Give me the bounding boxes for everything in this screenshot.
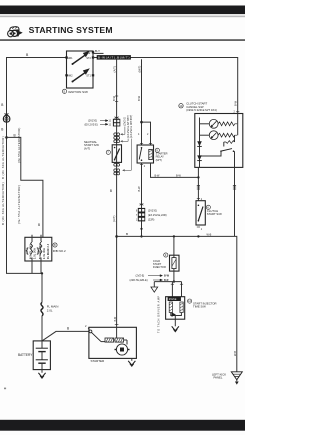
junction dot relay branch: [140, 121, 143, 124]
label B-W on M/T column: [137, 95, 141, 101]
clutch start cancel s/w box: [195, 114, 243, 168]
chassis ground left kick panel: [231, 372, 242, 385]
rotated label to tach driver amp: [156, 295, 160, 333]
rotated label B-W right side: [233, 100, 237, 106]
svg-text:(2VZ-E): (2VZ-E): [148, 209, 157, 213]
junction dot injector drop: [173, 235, 175, 237]
svg-text:(1992-5 22R-E M/T 4X4): (1992-5 22R-E M/T 4X4): [186, 108, 217, 112]
svg-text:(A/T): (A/T): [84, 146, 90, 150]
relay terminal ticks: [138, 133, 152, 144]
rotated engine variant labels: [124, 115, 133, 138]
starter box: [89, 327, 136, 358]
svg-text:B-W: B-W: [164, 275, 170, 278]
rotated label (A/T) drop: [112, 66, 116, 72]
svg-text:B-W: B-W: [233, 100, 237, 106]
top black header bar: [0, 6, 245, 18]
wire: 55A alternator branch: [7, 137, 43, 237]
rotated label W-B right column: [233, 351, 237, 356]
svg-text:B-W: B-W: [155, 174, 161, 177]
wire: branch to arrow and time switch: [154, 282, 181, 297]
svg-text:(M/T): (M/T): [156, 158, 162, 162]
battery ground: [38, 370, 45, 379]
wire: cancel s/w left output down: [197, 167, 199, 200]
starter motor: [115, 340, 130, 355]
svg-text:STARTING SYSTEM: STARTING SYSTEM: [29, 25, 114, 35]
label B-W below relay: [137, 186, 141, 192]
inline connector mark: [140, 204, 144, 206]
svg-text:(W/ 55A ALTERNATOR): (W/ 55A ALTERNATOR): [17, 127, 21, 163]
svg-text:INJECTOR: INJECTOR: [153, 265, 166, 269]
label B on AM1 wire: [26, 53, 29, 57]
svg-text:B-W: B-W: [112, 95, 116, 101]
label clutch start cancel s/w: [179, 102, 217, 113]
cancel s/w resistor 1: [218, 122, 237, 126]
svg-text:2.0L 30A: 2.0L 30A: [33, 248, 36, 259]
label STARTER: [91, 359, 106, 363]
title underline rule: [0, 39, 245, 40]
svg-text:FL MAIN 2.0: FL MAIN 2.0: [47, 243, 50, 259]
ignition switch blade 2: [72, 68, 90, 82]
wire: relay coil return horizontal: [151, 163, 199, 177]
svg-text:B (W/ 60A ALTERNATOR): B (W/ 60A ALTERNATOR): [1, 136, 5, 179]
junction dot alternator split: [5, 136, 8, 139]
cancel s/w small resistor: [224, 141, 235, 147]
label B-W above starter terminal: [114, 316, 119, 324]
cancel s/w lamp 1: [200, 119, 219, 128]
label B upper left wire: [1, 103, 3, 107]
svg-text:B-W: B-W: [137, 95, 141, 101]
label B on bus: [126, 232, 128, 236]
off-page arrow: [151, 287, 158, 292]
svg-text:AM1: AM1: [67, 56, 73, 60]
wire: relay switch output down: [141, 163, 143, 236]
wire color tag B-W(A/T),B(M/T): [97, 55, 131, 60]
label starter relay: [155, 148, 167, 162]
wire battery to starter: [42, 331, 89, 341]
svg-text:B: B: [110, 189, 112, 193]
label R/B No.2: [53, 243, 66, 253]
rotated label (A/T) lower: [112, 216, 116, 222]
svg-text:PANEL: PANEL: [214, 376, 223, 380]
inline connector right column: [233, 185, 236, 189]
svg-text:(A/T): (A/T): [112, 216, 116, 222]
svg-text:(22R-TE,22R-E): (22R-TE,22R-E): [130, 279, 148, 282]
relay bottom tick: [140, 165, 146, 168]
pin circles above NSS: [114, 133, 120, 143]
wire: ST main horizontal to right side: [93, 58, 238, 114]
rotated label B (W/ 60A ALTERNATOR) lower: [1, 182, 5, 225]
clutch start s/w box: [196, 198, 205, 231]
junction at FL MAIN wire: [41, 272, 43, 274]
svg-text:B-W(A/T),B(M/T): B-W(A/T),B(M/T): [98, 56, 130, 60]
svg-text:ST1: ST1: [86, 74, 91, 78]
neutral start switch box: [112, 145, 121, 163]
inline connector clutch column: [197, 185, 200, 189]
wire IG2 stub: [93, 49, 104, 53]
svg-text:START S/W: START S/W: [207, 212, 222, 216]
svg-text:2.0L 30A: 2.0L 30A: [43, 248, 46, 259]
rotated label (W/ 55A ALTERNATOR) upper: [17, 127, 21, 163]
svg-text:W-B: W-B: [233, 351, 237, 356]
connector block 1J: [113, 117, 120, 127]
svg-text:R/B NO.2: R/B NO.2: [53, 249, 66, 253]
junction dot relay-to-clutch: [197, 176, 199, 178]
cancel s/w wire right rail: [235, 114, 238, 143]
starter terminal 30: [85, 324, 92, 333]
svg-text:(EX.2VZ-E,22R): (EX.2VZ-E,22R): [148, 213, 167, 217]
cancel s/w diode 2: [197, 155, 202, 160]
svg-text:(W/ 55A ALTERNATOR): (W/ 55A ALTERNATOR): [17, 185, 21, 224]
label B-W on return wire 1: [155, 174, 161, 177]
svg-text:B: B: [1, 103, 3, 107]
start injector time switch box: [166, 297, 185, 320]
wire: AM1 feed, left run from ignition switch: [7, 58, 67, 274]
svg-text:ST2: ST2: [86, 56, 91, 60]
connector variant labels: [148, 209, 167, 222]
wire below injector: [173, 271, 175, 282]
terminal tick cancel top: [234, 111, 240, 114]
bottom black bar: [0, 420, 245, 431]
svg-text:B-W: B-W: [176, 174, 182, 177]
rotated label B (W/ 60A ALTERNATOR) upper: [1, 136, 5, 179]
cancel s/w internal left rail: [199, 118, 201, 168]
rotated label (M/T) drop: [137, 66, 141, 73]
label B near branch bottom: [38, 223, 40, 227]
connector 2 on left wire: [3, 114, 9, 123]
cancel s/w diode 1: [197, 141, 202, 146]
svg-text:B: B: [14, 133, 16, 137]
wire: cold start injector drop: [173, 236, 175, 255]
svg-text:B-W: B-W: [114, 316, 117, 321]
svg-text:TO TACH DRIVER AMP: TO TACH DRIVER AMP: [156, 295, 160, 333]
svg-text:(M/T): (M/T): [137, 66, 141, 73]
cancel s/w lamp 2: [200, 131, 219, 140]
svg-text:(A/T): (A/T): [112, 66, 116, 72]
svg-text:(22R): (22R): [148, 218, 155, 222]
ignition switch terminal blobs: [65, 51, 94, 76]
svg-text:(EX.2VZ-E): (EX.2VZ-E): [85, 122, 98, 126]
svg-text:B-W: B-W: [137, 186, 141, 192]
connector block below relay: [136, 208, 145, 222]
label BATTERY: [18, 353, 33, 357]
svg-text:B-Y: B-Y: [95, 49, 100, 53]
label B on branch: [14, 133, 16, 137]
junction dot A/T column at bus: [115, 235, 118, 238]
wire: A/T drop column: [116, 59, 118, 327]
label B-W on A/T column: [112, 95, 118, 101]
label clutch start s/w: [206, 205, 222, 216]
svg-text:B: B: [67, 327, 69, 331]
svg-text:B: B: [126, 232, 128, 236]
svg-text:(2VZ-E): (2VZ-E): [88, 119, 97, 123]
label B battery wire: [67, 327, 69, 331]
junction dot injector branch: [173, 280, 175, 282]
page artifact speck: [4, 388, 6, 390]
starter ground: [128, 358, 135, 366]
wire: cancel s/w right output down: [234, 167, 236, 236]
relay block R/B No.2: [18, 49, 243, 384]
cold start injector box: [170, 255, 180, 271]
starting system icon (starter motor glyph): [8, 27, 22, 37]
wire: relay coil branch: [142, 122, 151, 145]
rotated label (W/ 55A ALTERNATOR) lower: [17, 185, 21, 224]
svg-text:B: B: [1, 128, 3, 132]
starter relay box: [137, 145, 153, 163]
svg-text:W-B: W-B: [207, 234, 212, 237]
junction dot M/T column at bus: [140, 228, 142, 238]
wire color variant labels: [130, 275, 170, 283]
svg-text:B: B: [38, 223, 40, 227]
svg-text:STARTER: STARTER: [91, 359, 106, 363]
cancel s/w resistor 2: [218, 133, 237, 137]
svg-text:AM2: AM2: [67, 74, 73, 78]
title STARTING SYSTEM: [29, 25, 114, 35]
pin circles below NSS: [114, 163, 120, 175]
fusible link FL MAIN: [41, 273, 58, 341]
label start injector time s/w: [188, 299, 217, 309]
starter contact blade: [92, 332, 106, 341]
battery: [33, 341, 50, 370]
label left kick panel: [212, 372, 226, 379]
wire: M/T drop column: [141, 59, 143, 145]
wire: bottom bus: [117, 236, 237, 371]
time switch ground: [172, 319, 179, 332]
svg-text:B (W/ 60A ALTERNATOR): B (W/ 60A ALTERNATOR): [1, 182, 5, 225]
label ignition s/w: [62, 89, 88, 94]
label B lower on left wire: [1, 128, 3, 132]
leader arrows to pins: [121, 127, 132, 172]
label B on A/T column: [110, 189, 112, 193]
svg-text:(EX.2VZ-E M/T 6BT): (EX.2VZ-E M/T 6BT): [130, 115, 133, 138]
junction dot clutch column at bus: [197, 235, 199, 237]
connector 1J labels: [85, 119, 112, 127]
svg-text:2.0L: 2.0L: [47, 308, 53, 312]
cancel s/w switch: [200, 149, 235, 168]
starter pull-in coils: [105, 327, 127, 342]
terminal tick time switch: [171, 283, 183, 285]
svg-text:{: {: [26, 246, 29, 255]
label cold start injector: [153, 253, 168, 269]
svg-text:BATTERY: BATTERY: [18, 353, 33, 357]
svg-text:TIME S/W: TIME S/W: [193, 305, 206, 309]
svg-text:2VZ-E: 2VZ-E: [169, 297, 177, 301]
label B-W on return wire 2: [176, 174, 182, 177]
svg-text:(2VZ-E): (2VZ-E): [136, 275, 145, 278]
ignition switch box: [67, 51, 94, 88]
label W-B clutch bottom: [207, 234, 212, 237]
svg-text:IGNITION S/W: IGNITION S/W: [68, 90, 88, 94]
ignition switch blade 1: [72, 51, 90, 65]
label neutral start s/w: [84, 140, 110, 155]
